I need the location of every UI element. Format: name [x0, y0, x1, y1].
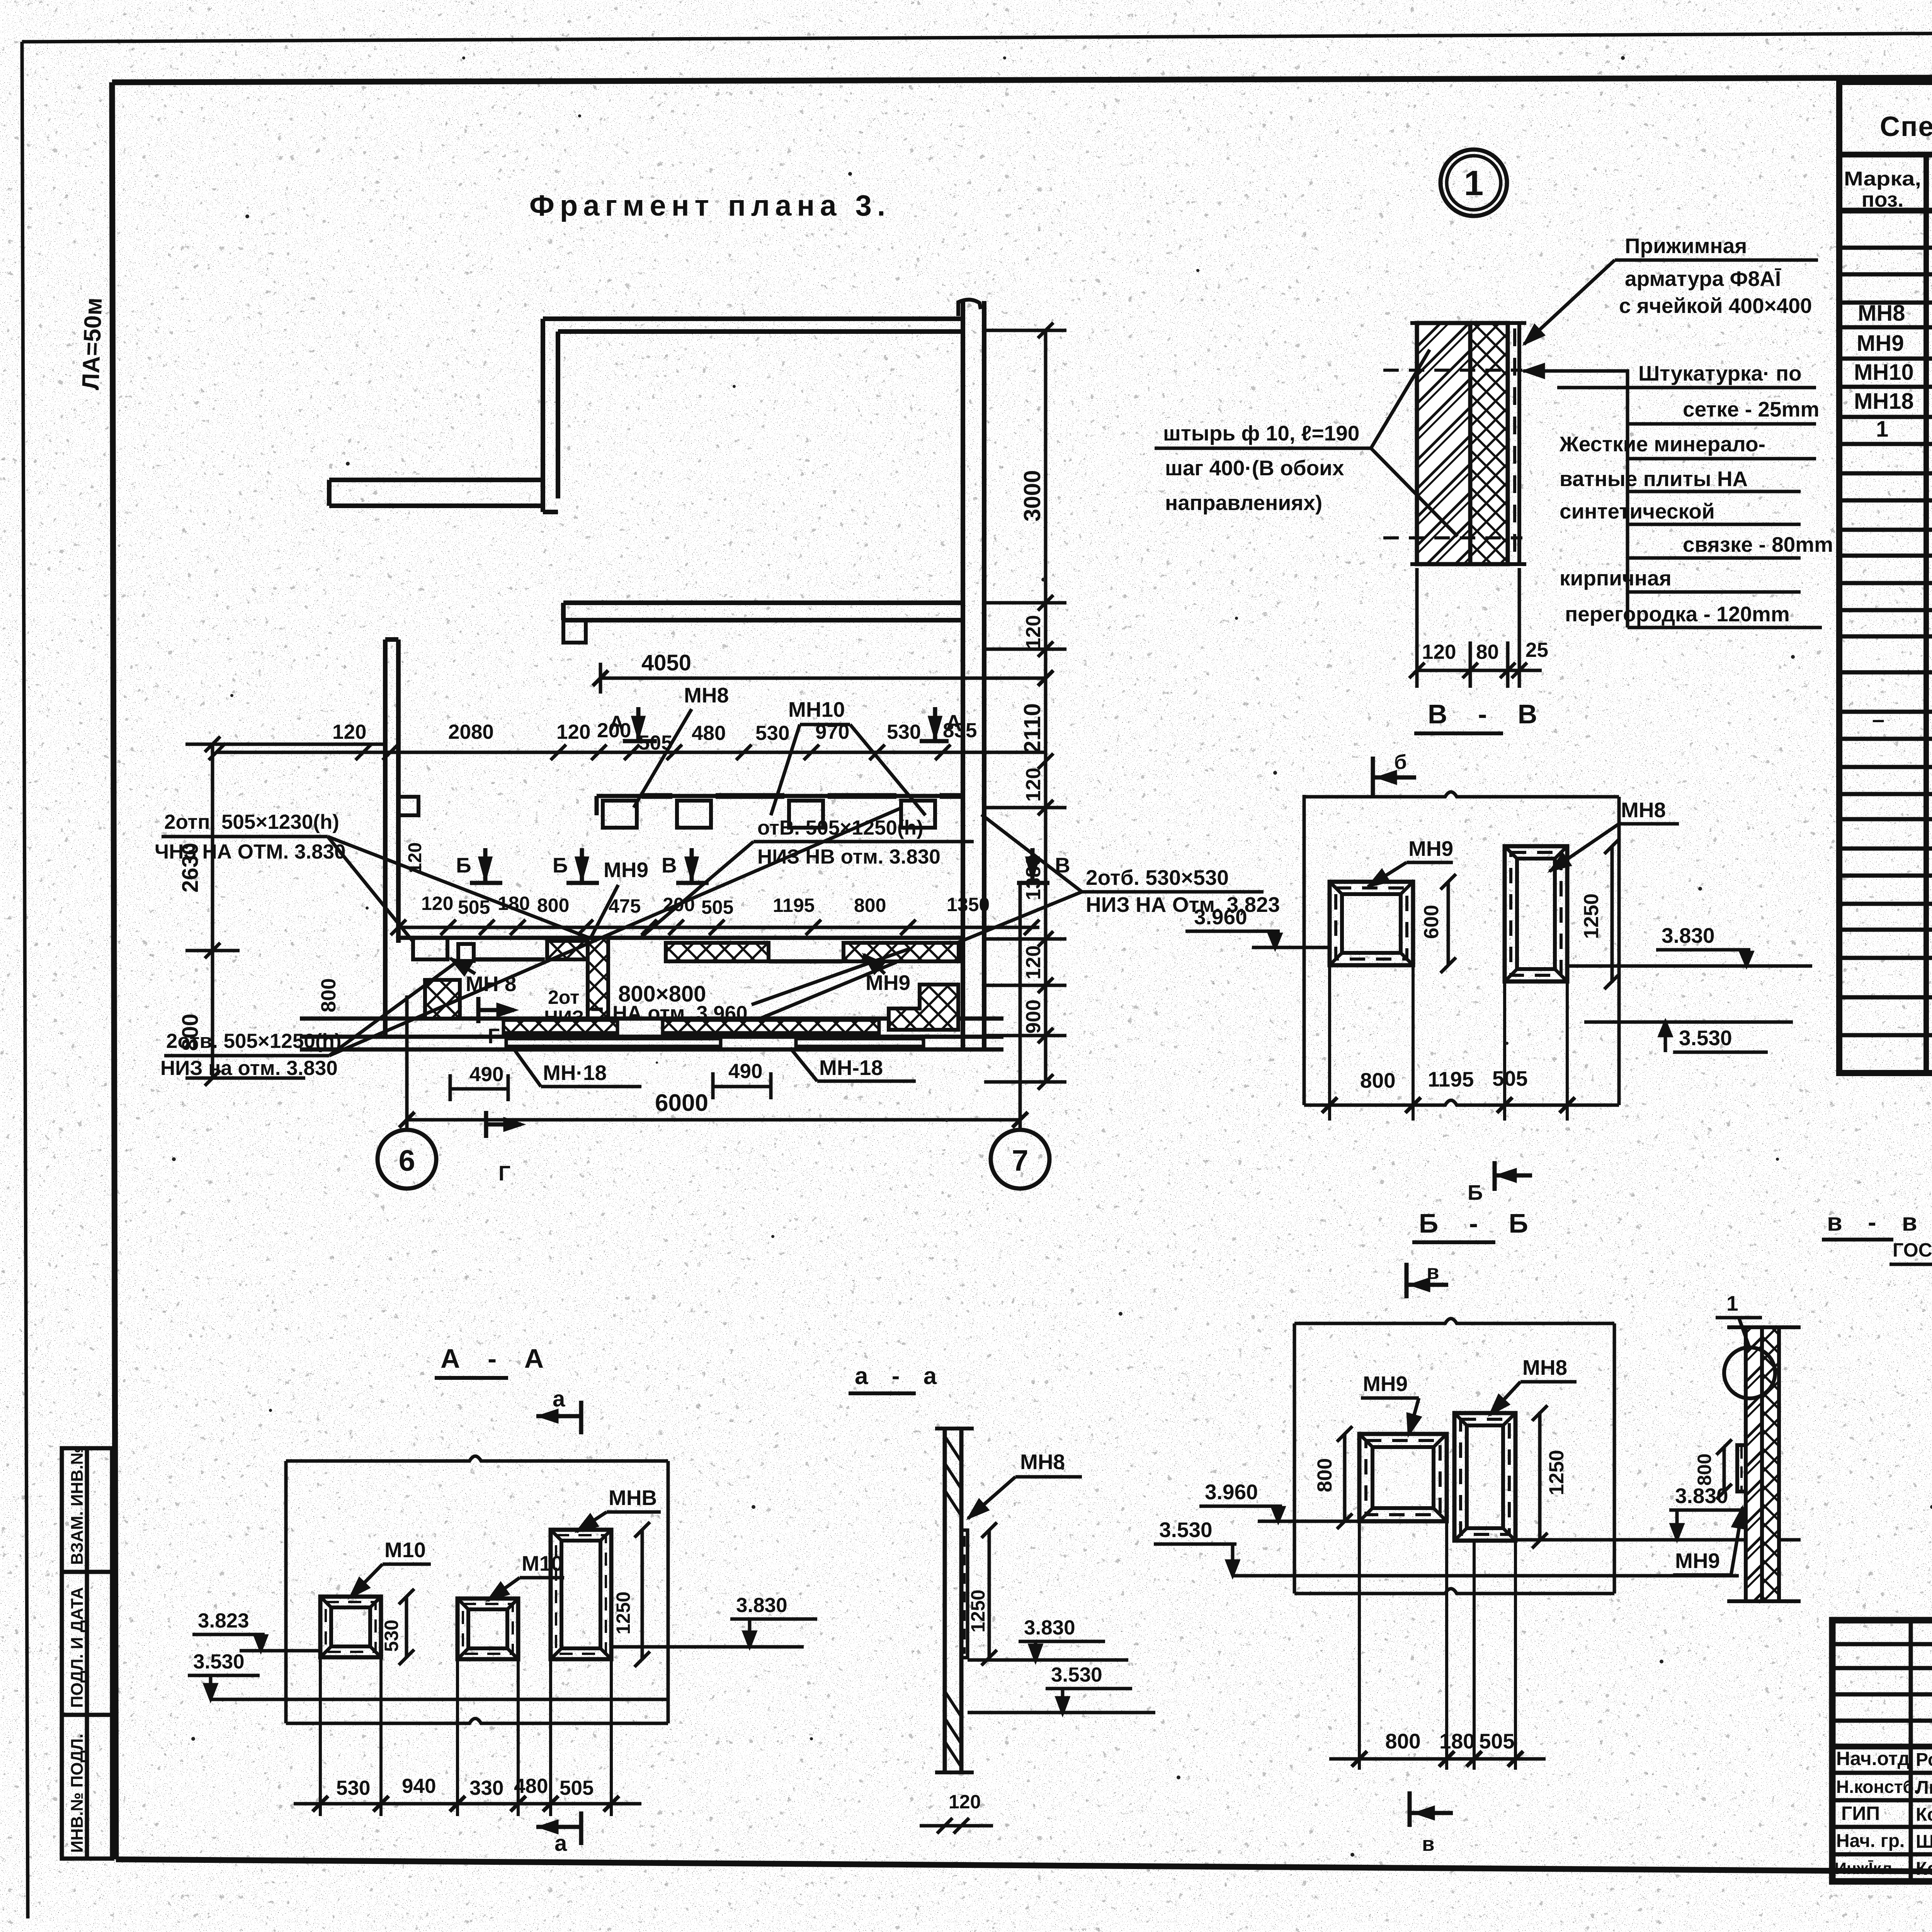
svg-text:МН8: МН8 — [684, 683, 729, 707]
А-А boundary — [286, 1456, 668, 1724]
svg-text:Шленова: Шленова — [1916, 1832, 1932, 1852]
МН10 leaders — [771, 724, 925, 815]
svg-text:Н.констб.: Н.констб. — [1836, 1777, 1919, 1797]
table outline — [1839, 82, 1932, 1073]
svg-text:б: б — [1394, 751, 1407, 774]
frame bottom — [116, 1859, 1932, 1876]
dim 1250 rotated (Б-Б) — [1538, 1413, 1542, 1541]
plate М10 #1 (А-А) — [320, 1597, 381, 1657]
svg-text:ЛА=50м: ЛА=50м — [77, 297, 107, 391]
outer border left — [22, 42, 28, 1918]
mid dim text row — [421, 893, 990, 918]
svg-text:6: 6 — [399, 1144, 415, 1177]
svg-text:Б - Б: Б - Б — [1419, 1208, 1540, 1238]
svg-text:505: 505 — [560, 1777, 594, 1799]
dim 800 rotated (В-В) — [1447, 882, 1450, 965]
svg-text:Фрагмент плана 3.: Фрагмент плана 3. — [529, 189, 891, 222]
svg-text:М10: М10 — [522, 1551, 563, 1575]
table vertical grid — [1926, 155, 1932, 1073]
svg-text:Жесткие минерало-: Жесткие минерало- — [1559, 432, 1765, 456]
left columns — [1832, 1620, 1932, 1881]
svg-text:530: 530 — [887, 721, 921, 743]
svg-text:сетке - 25mm: сетке - 25mm — [1683, 397, 1819, 421]
svg-text:Нач.отд: Нач.отд — [1836, 1748, 1910, 1769]
svg-text:ИнжĪкл.: ИнжĪкл. — [1835, 1859, 1897, 1878]
dim 1250 rotated (В-В) — [1611, 846, 1614, 981]
В-В boundary — [1304, 792, 1619, 1105]
table horizontal grid — [1839, 155, 1932, 1035]
marker в bottom (Б-Б) — [1410, 1791, 1453, 1827]
upper room left wall — [541, 319, 545, 512]
svg-text:Нач. гр.: Нач. гр. — [1836, 1831, 1905, 1851]
svg-text:3.530: 3.530 — [193, 1650, 245, 1673]
svg-text:1250: 1250 — [1580, 893, 1603, 939]
mineral wool band (cross-hatched) — [1470, 323, 1508, 564]
sections — [188, 699, 1932, 1856]
mid dim line — [391, 920, 1039, 935]
thin wall (а-а) — [935, 1429, 974, 1772]
svg-text:В: В — [1055, 853, 1070, 877]
left lower wall — [385, 639, 418, 1039]
svg-text:530: 530 — [755, 722, 789, 745]
plan — [155, 189, 1331, 1189]
svg-text:Б: Б — [456, 853, 471, 877]
svg-text:530: 530 — [336, 1777, 370, 1799]
svg-text:с ячейкой 400×400: с ячейкой 400×400 — [1619, 294, 1812, 318]
dim 1250 rotated (А-А) — [641, 1530, 644, 1659]
svg-text:800: 800 — [1385, 1729, 1421, 1753]
svg-text:а: а — [553, 1386, 565, 1412]
svg-text:4050: 4050 — [641, 650, 691, 675]
svg-text:МН9: МН9 — [1857, 331, 1904, 356]
svg-text:ГИП: ГИП — [1841, 1803, 1880, 1824]
dim 800 rotated (Б-Б) — [1343, 1434, 1347, 1521]
plate МН8 (А-А) — [551, 1530, 611, 1659]
tie pin dashed lines — [1383, 369, 1522, 372]
bottom wall band — [300, 1019, 1003, 1049]
detail circle (в-в) — [1724, 1347, 1775, 1398]
plate МН8 (Б-Б) — [1454, 1413, 1515, 1541]
svg-text:А - А: А - А — [440, 1344, 554, 1374]
svg-text:Ковалев: Ковалев — [1916, 1804, 1932, 1825]
svg-text:25: 25 — [1526, 639, 1548, 662]
plate МН9 (Б-Б) — [1359, 1434, 1447, 1521]
svg-text:ватные плиты НА: ватные плиты НА — [1560, 467, 1748, 491]
svg-text:ПОДЛ. И ДАТА: ПОДЛ. И ДАТА — [68, 1587, 87, 1708]
svg-text:поз.: поз. — [1862, 187, 1904, 211]
svg-text:МН-18: МН-18 — [819, 1056, 883, 1080]
right corner hatched block — [889, 985, 958, 1030]
plaster band — [1508, 323, 1519, 564]
svg-text:связке - 80mm: связке - 80mm — [1683, 532, 1833, 556]
svg-text:1: 1 — [1726, 1291, 1738, 1315]
svg-text:2от: 2от — [548, 986, 580, 1008]
brick wall band (hatched) — [1417, 323, 1470, 564]
plate on wall face (в-в) — [1737, 1445, 1746, 1492]
svg-text:490: 490 — [469, 1063, 503, 1086]
svg-text:1: 1 — [1464, 164, 1484, 203]
svg-text:3.530: 3.530 — [1159, 1518, 1213, 1542]
svg-text:МН·18: МН·18 — [543, 1061, 607, 1085]
detail marker circle 1 — [1440, 150, 1507, 216]
svg-text:2080: 2080 — [448, 721, 494, 743]
svg-text:Штукатурка· по: Штукатурка· по — [1638, 361, 1802, 385]
signature rows labels — [1835, 1748, 1919, 1878]
detail dims 120/80/25 — [1409, 568, 1542, 688]
svg-text:120: 120 — [1022, 615, 1045, 649]
left margin stamp strip — [62, 1448, 112, 1859]
svg-text:2отп. 505×1230(h): 2отп. 505×1230(h) — [164, 811, 339, 833]
svg-text:120: 120 — [332, 721, 366, 743]
svg-text:80: 80 — [1476, 641, 1499, 663]
svg-text:НИЗ НА Отм. 3,823: НИЗ НА Отм. 3,823 — [1086, 893, 1280, 917]
detail 1 — [1155, 150, 1833, 688]
marker б top — [1373, 757, 1416, 798]
svg-text:в: в — [1422, 1833, 1435, 1855]
svg-text:490: 490 — [728, 1060, 762, 1083]
upper room top wall — [329, 299, 984, 1048]
svg-text:МН9: МН9 — [1363, 1372, 1408, 1396]
svg-text:МН9: МН9 — [604, 858, 648, 882]
svg-text:800: 800 — [537, 895, 569, 916]
svg-text:120: 120 — [949, 1791, 981, 1813]
svg-text:1350: 1350 — [947, 894, 990, 915]
svg-text:штырь ф 10, ℓ=190: штырь ф 10, ℓ=190 — [1163, 421, 1359, 445]
plate МН8 (В-В) — [1505, 846, 1567, 981]
svg-text:3.830: 3.830 — [1662, 923, 1715, 947]
plate М10 #2 (А-А) — [457, 1599, 518, 1659]
svg-text:505: 505 — [458, 896, 490, 918]
svg-text:800: 800 — [1694, 1454, 1715, 1486]
svg-text:505: 505 — [1492, 1066, 1528, 1090]
svg-text:2110: 2110 — [1019, 703, 1045, 753]
svg-text:530: 530 — [381, 1620, 402, 1652]
dim 800 rotated (в-в) — [1723, 1447, 1726, 1492]
svg-text:1250: 1250 — [1545, 1450, 1568, 1495]
svg-text:1195: 1195 — [773, 895, 815, 916]
svg-text:3.530: 3.530 — [1051, 1663, 1102, 1686]
svg-text:МН18: МН18 — [1854, 389, 1914, 414]
spec table — [1839, 82, 1932, 1073]
svg-text:940: 940 — [402, 1775, 436, 1798]
marker в top (Б-Б) — [1406, 1263, 1448, 1298]
Б-Б boundary — [1294, 1319, 1614, 1594]
door jamb block — [563, 620, 586, 643]
grid bubble 7 — [991, 1130, 1049, 1189]
svg-text:Роменский: Роменский — [1916, 1750, 1932, 1770]
Г marker lower — [486, 1111, 521, 1138]
svg-text:в: в — [1427, 1261, 1439, 1284]
svg-text:3.530: 3.530 — [1679, 1026, 1732, 1050]
dim 1250 rotated (а-а) — [988, 1530, 991, 1658]
section marker А left — [623, 707, 657, 741]
svg-text:МН10: МН10 — [1854, 360, 1914, 385]
top dim line with ticks — [209, 745, 1046, 760]
svg-text:МН9: МН9 — [866, 971, 910, 995]
svg-text:480: 480 — [692, 722, 726, 745]
svg-text:МН9: МН9 — [1675, 1549, 1720, 1573]
svg-text:120: 120 — [421, 893, 453, 914]
svg-text:ВЗАМ. ИНВ.№: ВЗАМ. ИНВ.№ — [68, 1446, 87, 1565]
svg-text:а: а — [554, 1831, 567, 1856]
middle wall with plates — [398, 938, 963, 1019]
svg-text:505: 505 — [1479, 1729, 1515, 1753]
svg-text:ЧНЗ НА ОТМ. 3.830: ЧНЗ НА ОТМ. 3.830 — [155, 840, 346, 863]
marker Б bottom (В-В) — [1495, 1161, 1532, 1191]
svg-text:НИЗ на отм. 3.830: НИЗ на отм. 3.830 — [160, 1057, 338, 1080]
svg-text:6000: 6000 — [655, 1090, 708, 1116]
Г marker upper — [478, 997, 514, 1023]
signature rows names — [1916, 1750, 1932, 1879]
title block outline — [1832, 1620, 1932, 1881]
svg-text:МНВ: МНВ — [609, 1486, 657, 1510]
svg-text:180: 180 — [1439, 1729, 1475, 1753]
svg-text:3.830: 3.830 — [736, 1594, 787, 1617]
svg-text:3.960: 3.960 — [1194, 905, 1247, 929]
svg-text:900: 900 — [1022, 1000, 1045, 1034]
plate МН9 (В-В) — [1330, 882, 1413, 965]
svg-text:Прижимная: Прижимная — [1625, 234, 1747, 258]
svg-text:3.823: 3.823 — [198, 1609, 249, 1632]
wall cap lines — [1410, 323, 1526, 564]
svg-text:480: 480 — [514, 1775, 548, 1798]
svg-text:Колинько: Колинько — [1916, 1859, 1932, 1879]
svg-text:2отб. 530×530: 2отб. 530×530 — [1086, 866, 1229, 889]
svg-text:МН8: МН8 — [1522, 1355, 1567, 1379]
svg-text:120: 120 — [556, 721, 590, 743]
svg-text:600: 600 — [1420, 905, 1443, 939]
svg-text:ИНВ.№ ПОДЛ.: ИНВ.№ ПОДЛ. — [68, 1734, 87, 1853]
dim 530 rotated (А-А) — [405, 1597, 408, 1657]
outer border top — [22, 30, 1932, 42]
svg-text:475: 475 — [609, 895, 641, 917]
svg-text:а - а: а - а — [855, 1363, 945, 1389]
svg-text:120: 120 — [1022, 946, 1045, 980]
svg-text:–: – — [1872, 707, 1884, 732]
svg-text:505: 505 — [701, 896, 733, 918]
svg-text:арматура Ф8АĪ: арматура Ф8АĪ — [1625, 267, 1781, 291]
svg-text:800: 800 — [1313, 1458, 1336, 1492]
svg-text:Б: Б — [553, 853, 568, 877]
leader spine — [1523, 371, 1628, 628]
dim 4050 — [600, 677, 1046, 680]
svg-text:7: 7 — [1012, 1144, 1029, 1177]
svg-text:МН8: МН8 — [1020, 1450, 1065, 1474]
svg-text:120: 120 — [1422, 641, 1456, 663]
svg-text:Б: Б — [1468, 1180, 1483, 1204]
title block — [1832, 1469, 1932, 1881]
svg-text:800: 800 — [317, 978, 340, 1012]
notch wall with 505 openings — [597, 796, 963, 828]
svg-text:Марка,: Марка, — [1844, 168, 1921, 190]
svg-text:перегородка - 120mm: перегородка - 120mm — [1565, 602, 1790, 626]
plate on wall (а-а) — [961, 1530, 968, 1658]
svg-text:направлениях): направлениях) — [1165, 491, 1322, 515]
svg-text:120: 120 — [1022, 768, 1045, 802]
svg-text:МН9: МН9 — [1408, 837, 1453, 861]
frame left — [112, 82, 116, 1859]
svg-text:в - в: в - в — [1827, 1208, 1927, 1236]
svg-text:3.960: 3.960 — [1205, 1480, 1258, 1504]
svg-text:Спецификация к фрагменту пл: Спецификация к фрагменту плана 3 — [1880, 111, 1932, 142]
svg-text:330: 330 — [469, 1777, 503, 1799]
svg-text:синтетической: синтетической — [1560, 499, 1715, 523]
bottom dims (А-А) — [320, 1657, 611, 1816]
svg-text:1250: 1250 — [967, 1590, 989, 1633]
interior slab wall — [563, 600, 963, 605]
markers Б Б В В row — [470, 848, 1049, 883]
svg-text:2отв. 505×1250(h): 2отв. 505×1250(h) — [166, 1030, 341, 1053]
svg-text:Г: Г — [498, 1161, 510, 1185]
svg-text:МН8: МН8 — [1858, 301, 1905, 326]
svg-text:1250: 1250 — [612, 1592, 634, 1634]
svg-text:МН10: МН10 — [788, 697, 845, 721]
svg-text:кирпичная: кирпичная — [1560, 566, 1672, 590]
svg-text:3.830: 3.830 — [1024, 1616, 1075, 1639]
svg-text:В - В: В - В — [1428, 699, 1549, 729]
right dimension column — [984, 323, 1066, 1090]
svg-text:МН8: МН8 — [1621, 798, 1666, 822]
grid bubble 6 — [378, 1130, 436, 1189]
section marker А right — [920, 707, 949, 741]
svg-text:800: 800 — [1360, 1068, 1396, 1092]
МН8 leader — [634, 709, 692, 808]
top dim text row — [332, 719, 977, 754]
svg-text:800: 800 — [854, 895, 886, 916]
frame top — [112, 76, 1932, 82]
svg-text:В: В — [662, 853, 677, 877]
svg-text:А: А — [946, 710, 961, 734]
right wall (double) — [961, 301, 965, 1048]
dashed mesh line — [1513, 328, 1516, 560]
left corner hatched block — [425, 980, 460, 1019]
svg-text:шаг 400·(В обоих: шаг 400·(В обоих — [1165, 456, 1344, 480]
svg-text:Лпцюк: Лпцюк — [1916, 1777, 1932, 1798]
svg-text:А: А — [609, 711, 624, 735]
svg-text:ГОСТ 14098-85-Н1-Рш: ГОСТ 14098-85-Н1-Рш — [1893, 1239, 1932, 1261]
left dim line — [185, 736, 386, 1086]
svg-text:3000: 3000 — [1019, 470, 1045, 522]
svg-text:М10: М10 — [384, 1538, 426, 1562]
wall (в-в) — [1746, 1327, 1762, 1601]
svg-text:1195: 1195 — [1428, 1067, 1474, 1091]
top-left notch wall — [329, 478, 543, 482]
svg-text:1: 1 — [1876, 417, 1888, 442]
